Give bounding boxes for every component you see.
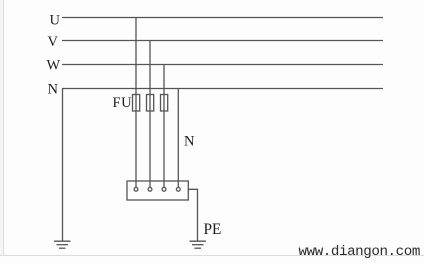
wire drop V to terminal 2 (149, 41, 151, 188)
terminal circle 1 (134, 187, 138, 191)
wire PE from terminal block to earth (188, 189, 197, 241)
terminal block (127, 181, 188, 200)
fuse FU2 (147, 95, 154, 112)
svg-text:N: N (48, 82, 59, 98)
svg-text:U: U (50, 13, 61, 29)
svg-text:W: W (47, 58, 61, 74)
wire drop N to terminal 4 (177, 89, 179, 188)
svg-text:www.diangon.com: www.diangon.com (299, 244, 420, 260)
wire phase line W (62, 64, 383, 66)
svg-text:FU: FU (113, 95, 133, 111)
fuse FU1 (133, 95, 140, 112)
svg-text:PE: PE (204, 221, 222, 238)
ground symbol right (PE earth) (190, 241, 207, 248)
svg-text:V: V (48, 34, 59, 50)
terminal circle 2 (148, 187, 152, 191)
wire phase line U (62, 17, 383, 19)
fuse FU3 (161, 95, 168, 112)
wire drop U to terminal 1 (135, 18, 137, 188)
ground symbol left (N earth) (54, 241, 71, 248)
terminal circle 3 (162, 187, 166, 191)
terminal circle 4 (176, 187, 180, 191)
wire drop W to terminal 3 (163, 65, 165, 188)
wire neutral line N (63, 89, 384, 242)
wire phase line V (62, 40, 383, 42)
svg-text:N: N (184, 134, 195, 150)
